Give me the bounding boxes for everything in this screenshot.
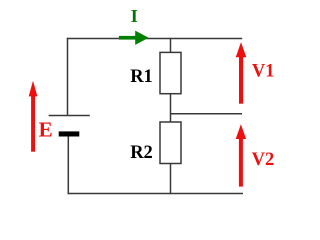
svg-text:V2: V2 [252,150,275,170]
svg-text:I: I [131,6,138,26]
svg-text:E: E [39,118,53,142]
svg-text:R2: R2 [130,143,153,163]
svg-text:V1: V1 [252,62,275,82]
svg-text:R1: R1 [130,67,153,87]
